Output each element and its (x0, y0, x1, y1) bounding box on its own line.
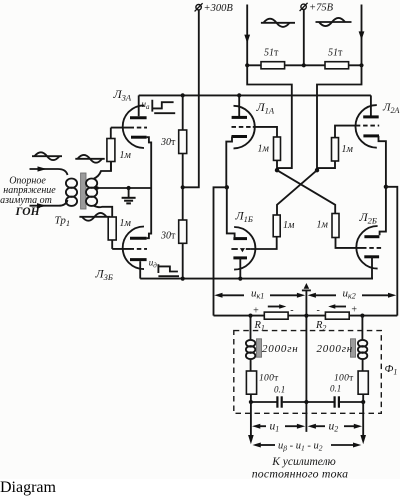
wire diagonal left to right (277, 170, 335, 213)
svg-text:uк1: uк1 (251, 288, 264, 301)
wire 51t rail (247, 64, 361, 66)
dimension Uk2 (308, 293, 397, 298)
svg-text:Л2Б: Л2Б (359, 210, 377, 226)
resistor R1 (264, 312, 288, 319)
wire anode rail y95 (139, 94, 371, 96)
annotation u_a waveform at L3A (142, 99, 176, 113)
wire +300V rail down to 30t midpoint (183, 10, 199, 187)
svg-text:1м: 1м (120, 150, 132, 161)
wire node1 jog to output column (214, 187, 227, 315)
wire output drop left with arrow (248, 402, 254, 444)
svg-text:Л3Б: Л3Б (95, 267, 113, 283)
svg-text:1м: 1м (283, 220, 295, 231)
junction dot 30t top on anode rail (181, 93, 185, 97)
sine symbol bottom left (79, 213, 110, 221)
svg-text:+: + (351, 304, 358, 315)
resistor 100t right (358, 371, 368, 402)
svg-text:+: + (253, 306, 260, 317)
wire left 51t end jog down to X node (247, 65, 292, 168)
svg-text:uк2: uк2 (343, 288, 356, 301)
svg-text:u1: u1 (270, 421, 280, 434)
junction dot X right (315, 168, 319, 172)
junction dot node1 (225, 185, 229, 189)
svg-text:30т: 30т (160, 137, 176, 148)
transformer Tr1 primary lead bottom with arrow (30, 200, 68, 208)
resistor 1m grid L3B (108, 217, 116, 249)
wire output drop right with arrow (360, 402, 366, 444)
svg-text:-: - (290, 305, 293, 316)
wire node1 down to L1B anode (227, 187, 235, 237)
wire L1A grid to 1m (253, 127, 277, 137)
svg-text:2000гн: 2000гн (262, 343, 299, 355)
svg-text:0.1: 0.1 (274, 385, 285, 395)
wire right 51t end jog down to X node (317, 65, 362, 170)
resistor R2 (325, 312, 349, 319)
resistor 1m lower left (251, 215, 280, 249)
resistor 51t left (261, 62, 285, 69)
dimension U1 (252, 424, 305, 429)
wire center reference column (305, 290, 307, 432)
svg-text:1м: 1м (342, 144, 354, 155)
svg-text:Л1А: Л1А (256, 100, 275, 116)
svg-text:uа: uа (142, 99, 151, 111)
svg-text:100т: 100т (334, 374, 354, 384)
svg-text:2000гн: 2000гн (317, 343, 354, 355)
resistor 1m grid L3A (107, 128, 115, 171)
arrow down on right feed (359, 31, 365, 40)
junction dots 51t rail (245, 63, 364, 67)
junction dot X left (275, 168, 279, 172)
wire R line (214, 315, 398, 317)
inductor 2000gn left (246, 316, 255, 371)
svg-text:Ф1: Ф1 (385, 363, 398, 376)
tube L2B (356, 226, 381, 279)
tube L2A (356, 95, 386, 186)
junction dot node2 (384, 185, 388, 189)
resistor 100t left (246, 371, 256, 402)
sine symbol left2 (75, 155, 104, 163)
wire center tap to ground (95, 186, 151, 190)
resistor 30t upper (179, 95, 187, 220)
current arrow over R2 (328, 304, 346, 308)
sine symbol A (261, 19, 295, 27)
svg-text:100т: 100т (259, 374, 279, 384)
resistor 1m upper right (317, 138, 339, 169)
wire capacitor row (251, 401, 363, 403)
svg-text:uβ - u1 - u2: uβ - u1 - u2 (278, 441, 323, 453)
node midpoint reference arrow (302, 283, 311, 290)
svg-text:1м: 1м (258, 144, 270, 155)
svg-text:Тр1: Тр1 (55, 215, 71, 229)
tube L3B (112, 188, 151, 279)
wire cathode rail (140, 278, 373, 280)
svg-text:+75В: +75В (309, 3, 334, 14)
transformer Tr1 primary winding (66, 179, 77, 206)
tube L1A (226, 95, 254, 187)
resistor 1m lower right (332, 214, 362, 248)
svg-text:-: - (317, 305, 320, 316)
terminal +300V (195, 3, 203, 11)
capacitor 0.1 left (277, 396, 281, 407)
svg-text:постоянного тока: постоянного тока (252, 467, 349, 480)
wire node2 jog to output column (386, 187, 397, 316)
dashed filter box F1 (234, 331, 381, 414)
junction dots R line (248, 314, 364, 318)
core left inductor (257, 339, 262, 357)
svg-text:1м: 1м (317, 220, 329, 231)
transformer Tr1 primary lead top with arrow (30, 166, 68, 175)
capacitor 0.1 right (335, 396, 339, 407)
junction dot 30t bottom on cathode rail (181, 277, 185, 281)
tube L3A (111, 95, 151, 188)
svg-text:1м: 1м (120, 218, 132, 229)
junction dot 30t midpoint (181, 185, 185, 189)
terminal +75V (300, 3, 308, 11)
wire left feed drop to 51t rail (246, 5, 248, 66)
svg-text:51т: 51т (264, 48, 279, 59)
text to DC amplifier (252, 456, 349, 481)
wire secondary bottom lead to grid resistor (94, 206, 113, 217)
wire diagonal right to left (277, 170, 317, 215)
junction dot L1B cathode on cathode rail (238, 277, 242, 281)
svg-text:30т: 30т (160, 231, 176, 242)
svg-text:u2: u2 (329, 421, 339, 434)
core right inductor (351, 339, 356, 357)
sine symbol left1 (32, 152, 62, 160)
sine symbol B (316, 18, 352, 26)
current arrow over R1 (268, 304, 287, 308)
svg-text:0.1: 0.1 (330, 384, 341, 394)
wire secondary top lead to grid resistor (94, 162, 112, 179)
inductor 2000gn right (358, 316, 367, 371)
svg-text:Л3А: Л3А (113, 87, 132, 103)
dimension Uk1 (214, 293, 305, 298)
resistor 1m upper left (274, 137, 281, 170)
wire node2 down to L2B anode (380, 187, 386, 236)
annotation u_d waveform at L3B (149, 258, 179, 277)
dimension U2 (308, 424, 363, 429)
junction dot L1A anode on anode rail (237, 93, 241, 97)
wire +75V drop (303, 10, 305, 66)
text reference voltage block (0, 176, 56, 219)
wire right feed drop to 51t rail (361, 5, 363, 66)
svg-text:ГОН: ГОН (14, 206, 40, 218)
svg-text:Л1Б: Л1Б (235, 209, 253, 225)
svg-text:Л2А: Л2А (382, 102, 399, 115)
transformer Tr1 core (81, 173, 86, 209)
transformer Tr1 secondary winding (86, 179, 97, 206)
svg-text:51т: 51т (328, 48, 343, 59)
svg-text:uд: uд (149, 258, 158, 270)
resistor 51t right (325, 62, 349, 69)
ground (122, 188, 136, 203)
resistor 30t lower (179, 220, 187, 279)
svg-text:азимута от: азимута от (0, 195, 52, 206)
arrow down on left feed (244, 35, 250, 44)
dimension Ubeta (253, 443, 362, 448)
tube L1B (231, 227, 255, 279)
wire L2A grid to 1m (335, 126, 356, 138)
svg-text:+300В: +300В (204, 3, 234, 14)
junction dots capacitor row (249, 400, 366, 404)
